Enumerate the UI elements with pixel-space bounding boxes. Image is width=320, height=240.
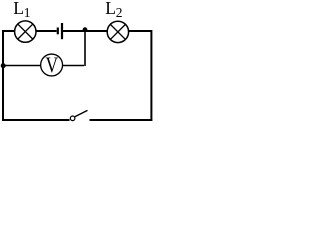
wire from left junction to voltmeter bbox=[3, 65, 41, 67]
junction node on left rail bbox=[1, 63, 6, 68]
wire from L2 to right rail bbox=[129, 30, 153, 32]
battery cell: long positive plate bbox=[61, 23, 63, 39]
svg-text:L: L bbox=[105, 0, 116, 18]
right rail wire bbox=[150, 30, 152, 121]
wire from battery to lamp L2 bbox=[63, 30, 108, 32]
wire from L1 to battery bbox=[36, 30, 57, 32]
left rail wire bbox=[2, 30, 4, 121]
junction node on top wire bbox=[83, 27, 88, 32]
voltmeter V1 bbox=[41, 52, 63, 77]
wire from voltmeter up to top junction bbox=[63, 30, 86, 66]
label L1 bbox=[13, 0, 30, 20]
lamp L2 bbox=[107, 21, 128, 42]
label L2 bbox=[105, 0, 122, 20]
switch (open) bbox=[70, 110, 87, 120]
wire top-left from left rail to lamp L1 bbox=[2, 30, 15, 32]
svg-text:2: 2 bbox=[116, 5, 123, 20]
svg-text:1: 1 bbox=[24, 5, 31, 20]
bottom wire left of switch bbox=[2, 119, 70, 121]
bottom wire right of switch bbox=[90, 119, 153, 121]
battery cell: short negative plate bbox=[57, 28, 59, 35]
svg-text:V: V bbox=[46, 52, 59, 77]
svg-text:L: L bbox=[13, 0, 24, 18]
lamp L1 bbox=[15, 21, 36, 42]
